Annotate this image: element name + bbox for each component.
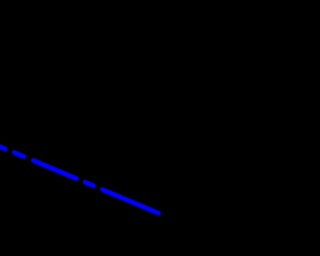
wire dash segment 2 [14,152,24,156]
wire dash segment 5 (long, line end) [102,189,158,213]
wire dash segment 1 (clipped at left edge) [0,145,5,149]
wire dash segment 3 (long) [33,160,76,178]
wire dash segment 4 [85,182,93,186]
